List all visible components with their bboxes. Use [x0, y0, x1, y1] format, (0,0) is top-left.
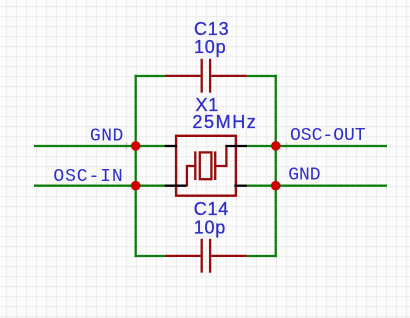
pin 2 X1 top-left black stub	[165, 145, 177, 147]
wire top bar left segment	[135, 75, 165, 77]
svg-text:10p: 10p	[194, 37, 226, 57]
capacitor C13 right lead	[211, 75, 247, 77]
pin 4 X1 bottom-right black stub	[234, 185, 247, 187]
capacitor C13 left plate	[201, 59, 203, 93]
wire GND left horizontal	[34, 145, 136, 147]
faint grid tick right of OSC-OUT junction	[285, 143, 287, 150]
junction dot right OSC-OUT node	[271, 141, 281, 151]
wire GND right horizontal	[276, 185, 388, 187]
svg-text:GND: GND	[288, 166, 320, 186]
svg-text:25MHz: 25MHz	[192, 112, 257, 132]
wire stub left top pin	[136, 145, 165, 147]
capacitor C14 left lead	[165, 255, 201, 257]
svg-text:C14: C14	[194, 199, 229, 219]
wire stub left bottom pin	[136, 185, 165, 187]
wire bottom bar right segment	[247, 255, 277, 257]
svg-text:OSC-IN: OSC-IN	[53, 167, 123, 187]
crystal X1 left electrode step	[187, 166, 195, 186]
svg-text:GND: GND	[90, 127, 124, 147]
crystal X1 quartz rectangle	[200, 152, 212, 179]
crystal X1 body box	[176, 136, 236, 196]
faint grid tick left of GND junction	[125, 142, 127, 149]
wire right vertical	[275, 75, 277, 257]
capacitor C13 left lead	[165, 75, 201, 77]
wire OSC-OUT right horizontal	[276, 145, 388, 147]
junction dot left GND node	[131, 141, 141, 151]
wire left vertical	[135, 75, 137, 257]
wire stub right bottom pin	[247, 185, 275, 187]
wire top bar right segment	[247, 75, 277, 77]
svg-text:10p: 10p	[194, 218, 226, 238]
capacitor C14 left plate	[201, 239, 203, 273]
crystal X1 right electrode step	[215, 146, 226, 166]
junction dot right GND node	[271, 181, 281, 191]
svg-text:C13: C13	[194, 19, 229, 39]
crystal X1 right plate	[214, 151, 216, 180]
pin 3 X1 top-right black stub	[225, 145, 247, 147]
wire OSC-IN left horizontal	[34, 185, 136, 187]
wire stub right top pin	[247, 145, 275, 147]
pin 1 X1 bottom-left black stub	[165, 185, 187, 187]
capacitor C14 right lead	[211, 255, 247, 257]
capacitor C13 right plate	[209, 59, 211, 93]
wire bottom bar left segment	[135, 255, 165, 257]
junction dot left OSC-IN node	[131, 181, 141, 191]
svg-text:OSC-OUT: OSC-OUT	[290, 126, 366, 146]
crystal X1 left plate	[194, 151, 196, 180]
capacitor C14 right plate	[209, 239, 211, 273]
